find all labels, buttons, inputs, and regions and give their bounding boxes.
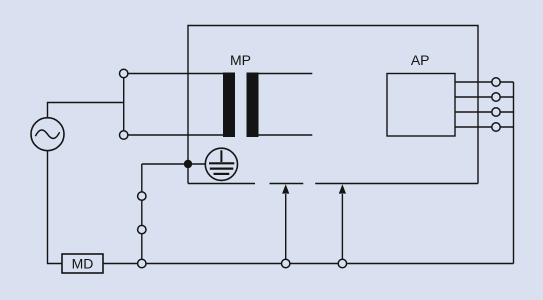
svg-text:MD: MD: [72, 255, 94, 271]
svg-text:MP: MP: [230, 52, 251, 68]
svg-text:AP: AP: [411, 52, 430, 68]
